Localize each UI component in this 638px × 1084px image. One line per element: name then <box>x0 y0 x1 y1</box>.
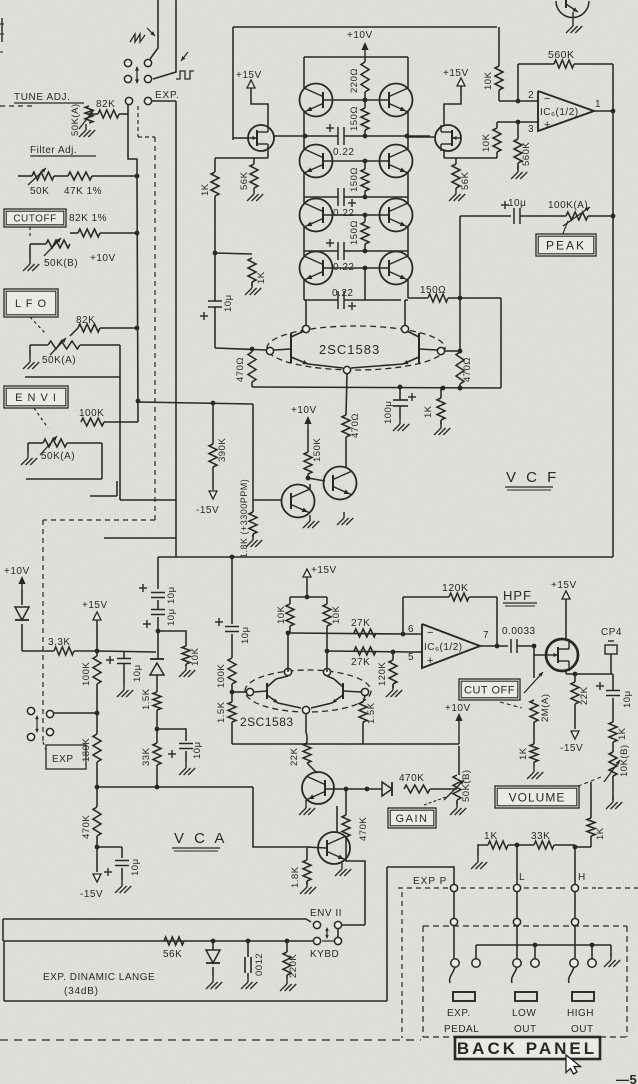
svg-text:56K: 56K <box>163 949 182 960</box>
svg-text:6: 6 <box>408 624 414 635</box>
svg-text:560K: 560K <box>521 142 532 166</box>
svg-text:10K: 10K <box>190 647 201 666</box>
svg-text:1K: 1K <box>256 271 267 284</box>
svg-text:470K: 470K <box>358 817 369 841</box>
svg-text:82K: 82K <box>96 99 115 110</box>
svg-text:OUT: OUT <box>514 1024 537 1035</box>
svg-text:100K: 100K <box>81 662 92 686</box>
svg-text:1.5K: 1.5K <box>141 688 152 710</box>
svg-text:150Ω: 150Ω <box>420 285 446 296</box>
svg-text:0.22: 0.22 <box>333 208 354 219</box>
svg-text:1: 1 <box>595 99 601 110</box>
svg-text:50K(A): 50K(A) <box>42 355 76 366</box>
svg-text:+10V: +10V <box>90 253 116 264</box>
svg-text:1.5K: 1.5K <box>216 701 227 723</box>
svg-text:GAIN: GAIN <box>396 813 429 825</box>
svg-text:−: − <box>544 93 551 105</box>
svg-text:56K: 56K <box>239 171 250 190</box>
svg-text:-15V: -15V <box>560 743 583 754</box>
svg-text:33K: 33K <box>141 747 152 766</box>
svg-text:PEDAL: PEDAL <box>444 1024 479 1035</box>
svg-text:10μ: 10μ <box>508 198 526 209</box>
svg-text:100μ: 100μ <box>383 401 394 424</box>
svg-text:BACK PANEL: BACK PANEL <box>457 1039 597 1058</box>
svg-text:+: + <box>427 655 434 667</box>
svg-text:10K: 10K <box>481 133 492 152</box>
svg-text:2M(A): 2M(A) <box>540 694 551 722</box>
svg-text:+15V: +15V <box>82 600 108 611</box>
svg-text:10K(B): 10K(B) <box>619 744 630 777</box>
svg-text:50K(B): 50K(B) <box>44 258 78 269</box>
svg-text:7: 7 <box>483 630 489 641</box>
svg-text:50K(A): 50K(A) <box>70 103 81 136</box>
svg-text:0.22: 0.22 <box>332 288 353 299</box>
svg-text:120K: 120K <box>442 582 469 594</box>
svg-text:V C A: V C A <box>174 830 227 847</box>
svg-text:+15V: +15V <box>443 68 469 79</box>
svg-text:10μ: 10μ <box>166 608 177 626</box>
svg-text:10μ: 10μ <box>132 664 143 682</box>
svg-text:470Ω: 470Ω <box>235 357 246 382</box>
svg-text:150Ω: 150Ω <box>349 167 360 192</box>
svg-text:HPF: HPF <box>503 588 532 603</box>
svg-text:+15V: +15V <box>551 580 577 591</box>
svg-text:150K: 150K <box>312 438 323 462</box>
svg-text:82K 1%: 82K 1% <box>69 213 107 224</box>
svg-text:2SC1583: 2SC1583 <box>240 715 294 729</box>
svg-text:10μ: 10μ <box>240 626 251 644</box>
svg-text:2: 2 <box>528 90 534 101</box>
svg-text:EXP.: EXP. <box>447 1008 471 1019</box>
svg-text:+10V: +10V <box>4 566 30 577</box>
svg-text:-15V: -15V <box>80 889 103 900</box>
svg-text:+10V: +10V <box>347 30 373 41</box>
svg-text:PEAK: PEAK <box>546 238 586 252</box>
svg-text:1K: 1K <box>200 183 211 196</box>
svg-text:+: + <box>544 119 551 131</box>
svg-text:+10V: +10V <box>291 405 317 416</box>
svg-text:470Ω: 470Ω <box>462 357 473 382</box>
svg-text:5: 5 <box>408 652 414 663</box>
svg-text:100K(A): 100K(A) <box>548 200 588 211</box>
svg-text:27K: 27K <box>351 618 370 629</box>
svg-text:10μ: 10μ <box>130 858 141 876</box>
svg-text:IC₆(1/2): IC₆(1/2) <box>540 107 579 118</box>
svg-text:1K: 1K <box>617 727 628 740</box>
svg-text:+15V: +15V <box>236 70 262 81</box>
svg-text:10μ: 10μ <box>622 690 633 708</box>
svg-text:VOLUME: VOLUME <box>509 790 566 804</box>
svg-text:470K: 470K <box>399 773 424 784</box>
svg-text:0.0033: 0.0033 <box>502 626 536 637</box>
svg-text:220K: 220K <box>288 954 299 978</box>
svg-text:−: − <box>427 627 434 639</box>
svg-text:L F O: L F O <box>15 298 47 310</box>
svg-text:(34dB): (34dB) <box>64 986 99 997</box>
svg-text:1K: 1K <box>518 747 529 760</box>
svg-text:33K: 33K <box>531 831 550 842</box>
svg-text:V C F: V C F <box>506 469 559 486</box>
svg-text:1K: 1K <box>595 827 606 840</box>
svg-text:390K: 390K <box>217 438 228 462</box>
svg-text:CP4: CP4 <box>601 627 622 638</box>
svg-text:EXP: EXP <box>52 754 74 765</box>
svg-text:470K: 470K <box>81 815 92 839</box>
svg-text:IC₆(1/2): IC₆(1/2) <box>424 642 463 653</box>
svg-text:100K: 100K <box>216 664 227 688</box>
svg-text:10K: 10K <box>331 605 342 624</box>
svg-text:220Ω: 220Ω <box>349 68 360 93</box>
svg-text:1K: 1K <box>484 831 498 842</box>
svg-text:47K 1%: 47K 1% <box>64 186 102 197</box>
svg-text:10μ: 10μ <box>223 294 234 312</box>
svg-text:0012: 0012 <box>254 953 265 976</box>
svg-text:50K(B): 50K(B) <box>461 769 472 802</box>
svg-text:KYBD: KYBD <box>310 949 339 960</box>
svg-text:―5: ―5 <box>616 1072 637 1084</box>
svg-text:50K: 50K <box>30 186 49 197</box>
svg-text:LOW: LOW <box>512 1008 536 1019</box>
svg-text:+10V: +10V <box>445 703 471 714</box>
svg-text:CUTOFF: CUTOFF <box>13 214 56 225</box>
svg-text:10μ: 10μ <box>166 586 177 604</box>
svg-text:EXP.: EXP. <box>155 90 180 101</box>
svg-text:TUNE ADJ.: TUNE ADJ. <box>14 92 71 103</box>
svg-text:22K: 22K <box>579 686 590 705</box>
svg-text:1K: 1K <box>423 405 434 418</box>
svg-text:150Ω: 150Ω <box>349 220 360 245</box>
svg-text:50K(A): 50K(A) <box>41 451 75 462</box>
svg-text:3: 3 <box>528 124 534 135</box>
svg-text:ENV II: ENV II <box>310 908 342 919</box>
svg-text:27K: 27K <box>351 657 370 668</box>
svg-text:0.22: 0.22 <box>333 147 354 158</box>
svg-text:Filter Adj.: Filter Adj. <box>30 145 77 156</box>
svg-text:CUT OFF: CUT OFF <box>464 684 515 696</box>
svg-text:2SC1583: 2SC1583 <box>319 342 380 357</box>
svg-text:470Ω: 470Ω <box>350 413 361 438</box>
svg-text:1.8K: 1.8K <box>290 866 301 888</box>
svg-text:1.5K: 1.5K <box>366 702 377 724</box>
svg-text:E N V I: E N V I <box>15 392 57 404</box>
svg-text:+15V: +15V <box>311 565 337 576</box>
svg-text:EXP. DINAMIC LANGE: EXP. DINAMIC LANGE <box>43 972 155 983</box>
svg-text:22K: 22K <box>289 747 300 766</box>
svg-text:10K: 10K <box>276 605 287 624</box>
svg-text:L: L <box>519 872 525 883</box>
svg-text:HIGH: HIGH <box>567 1008 594 1019</box>
svg-text:3.3K: 3.3K <box>48 637 71 648</box>
svg-text:10K: 10K <box>483 71 494 90</box>
svg-text:-15V: -15V <box>196 505 219 516</box>
svg-text:56K: 56K <box>460 171 471 190</box>
svg-text:EXP P: EXP P <box>413 876 447 887</box>
svg-text:560K: 560K <box>548 49 575 61</box>
svg-text:120K: 120K <box>377 662 388 686</box>
svg-text:10μ: 10μ <box>192 741 203 759</box>
svg-text:H: H <box>578 872 586 883</box>
svg-text:OUT: OUT <box>571 1024 594 1035</box>
svg-text:150Ω: 150Ω <box>349 106 360 131</box>
svg-text:0.22: 0.22 <box>333 262 354 273</box>
